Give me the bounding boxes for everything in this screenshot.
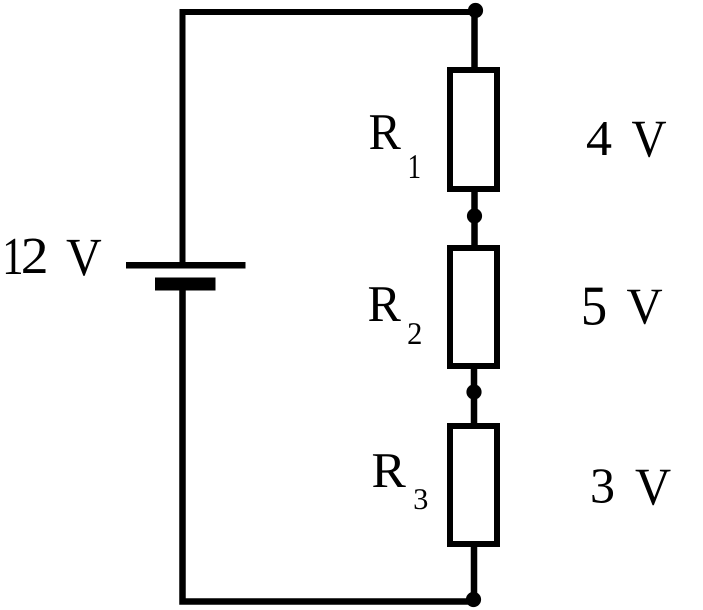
label: voltage "5" across R2 xyxy=(584,288,605,325)
wire: left rail upper + top wire xyxy=(183,12,476,265)
label: subscript 1 of R1 xyxy=(410,155,420,178)
node dot: junction between R2 and R3 xyxy=(466,384,481,399)
wire: R3 bottom to bottom rail xyxy=(471,544,478,601)
label: battery value "12" xyxy=(6,239,21,274)
label: voltage "3" across R3 xyxy=(592,469,613,503)
wire: R2 bottom to R3 top xyxy=(471,366,478,426)
battery B1: top plate (long thin, +) xyxy=(126,262,246,269)
wire: right rail, top node to R1 xyxy=(471,12,478,70)
label: battery unit "V" xyxy=(67,240,102,276)
resistor R2 body xyxy=(450,248,497,366)
label: unit "V" after 5 xyxy=(627,290,662,325)
label: R of R3 xyxy=(373,454,406,487)
label: subscript 2 of R2 xyxy=(408,323,420,344)
resistor R3 body xyxy=(450,426,497,544)
label: R of R1 xyxy=(370,115,401,149)
label: R of R2 xyxy=(369,287,401,321)
wire: R1 bottom to R2 top xyxy=(471,189,478,248)
label: unit "V" after 4 xyxy=(632,122,666,157)
battery B1: bottom plate (short thick, -) xyxy=(155,278,216,291)
label: subscript 3 of R3 xyxy=(415,489,428,509)
node dot: top junction xyxy=(468,3,483,18)
wire: left rail lower + bottom wire xyxy=(183,283,475,602)
label: unit "V" after 3 xyxy=(636,470,671,505)
node dot: bottom junction xyxy=(466,592,481,607)
node dot: junction between R1 and R2 xyxy=(467,208,482,223)
label: voltage "4" across R1 xyxy=(587,122,611,155)
resistor R1 body xyxy=(450,70,497,189)
